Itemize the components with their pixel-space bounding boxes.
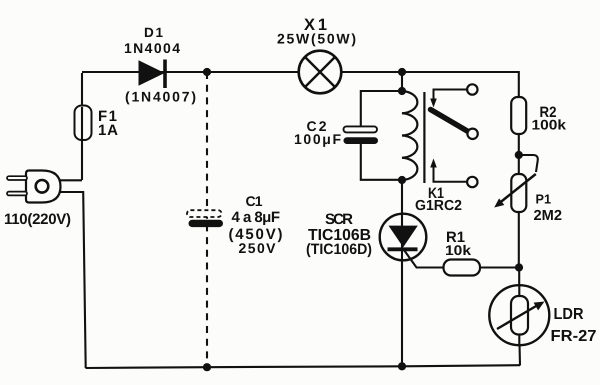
node junction dot top/K1	[398, 68, 406, 76]
resistor R1	[444, 260, 481, 276]
svg-text:P1: P1	[536, 192, 552, 207]
relay K1 contact NC bottom	[467, 177, 477, 187]
svg-text:G1RC2: G1RC2	[415, 198, 462, 214]
potentiometer P1 wiper arrow	[494, 174, 536, 208]
svg-text:1N4004: 1N4004	[124, 40, 180, 56]
svg-text:SCR: SCR	[325, 211, 353, 228]
LDR resistive element	[511, 296, 528, 335]
relay K1 contact common middle	[467, 129, 477, 139]
plug P110/220	[7, 171, 61, 203]
LDR arrow	[497, 302, 545, 330]
svg-text:(TIC106D): (TIC106D)	[306, 241, 372, 258]
relay K1 contact NO top	[467, 84, 477, 94]
wire plug neutral	[61, 192, 86, 368]
relay K1 coil	[402, 91, 417, 180]
potentiometer P1 wiper loop	[519, 155, 538, 172]
wire C2 branch	[361, 91, 402, 180]
relay K1 bottom contact lead with up arrow	[430, 159, 467, 182]
svg-text:100μF: 100μF	[294, 131, 341, 147]
wire LDR to bottom rail	[518, 335, 521, 366]
wire P1 to junction	[518, 212, 520, 268]
relay K1 top contact lead with down arrow	[430, 90, 467, 108]
svg-text:1A: 1A	[98, 122, 118, 139]
capacitor C2	[344, 126, 379, 144]
wire left rail	[81, 73, 83, 180]
resistor R2	[511, 97, 526, 134]
lamp X1	[299, 51, 342, 94]
svg-text:FR-27: FR-27	[551, 328, 597, 345]
LDR body circle	[489, 285, 549, 345]
svg-text:250V: 250V	[239, 240, 277, 256]
relay K1 pole line	[423, 92, 425, 183]
SCR gate lead	[404, 250, 444, 268]
wire branch K1/SCR vertical	[401, 72, 403, 91]
fuse F1	[75, 106, 92, 141]
svg-text:LDR: LDR	[554, 306, 584, 323]
SCR U1 body	[380, 214, 427, 261]
node junction dot coil bottom	[398, 176, 406, 184]
SCR internal wire	[401, 214, 403, 260]
node junction dot SCR cathode bottom	[398, 362, 406, 370]
wire top rail	[82, 72, 519, 98]
relay K1 armature	[431, 110, 470, 133]
svg-text:25W(50W): 25W(50W)	[277, 31, 356, 47]
wire bottom rail	[86, 365, 521, 368]
wire R1 right lead	[480, 266, 519, 268]
svg-text:110(220V): 110(220V)	[4, 211, 71, 228]
SCR anode triangle	[389, 226, 418, 248]
svg-text:100k: 100k	[532, 117, 567, 133]
diode D1	[139, 60, 167, 89]
node junction dot C1 bottom	[203, 363, 211, 371]
node C1 top (dashed wire)	[206, 72, 208, 367]
svg-text:D1: D1	[144, 25, 163, 40]
wire R2 to P1	[518, 134, 520, 175]
svg-text:(1N4007): (1N4007)	[125, 89, 196, 105]
svg-text:4 a 8μF: 4 a 8μF	[232, 209, 281, 226]
node junction dot coil top	[398, 87, 406, 95]
capacitor C1	[187, 210, 223, 227]
svg-text:10k: 10k	[445, 242, 471, 258]
svg-text:C1: C1	[246, 193, 263, 209]
potentiometer P1 body	[511, 174, 526, 212]
wire SCR anode	[401, 180, 403, 367]
node junction dot D1/C1	[203, 68, 211, 76]
wire plug live	[60, 179, 82, 181]
SCR cathode bar	[388, 247, 418, 251]
LDR internal wire	[518, 286, 520, 344]
node junction dot R2/P1	[515, 151, 523, 159]
svg-text:2M2: 2M2	[534, 208, 563, 224]
node junction dot R1/P1/LDR	[515, 263, 523, 271]
wire junction to LDR	[518, 268, 520, 297]
